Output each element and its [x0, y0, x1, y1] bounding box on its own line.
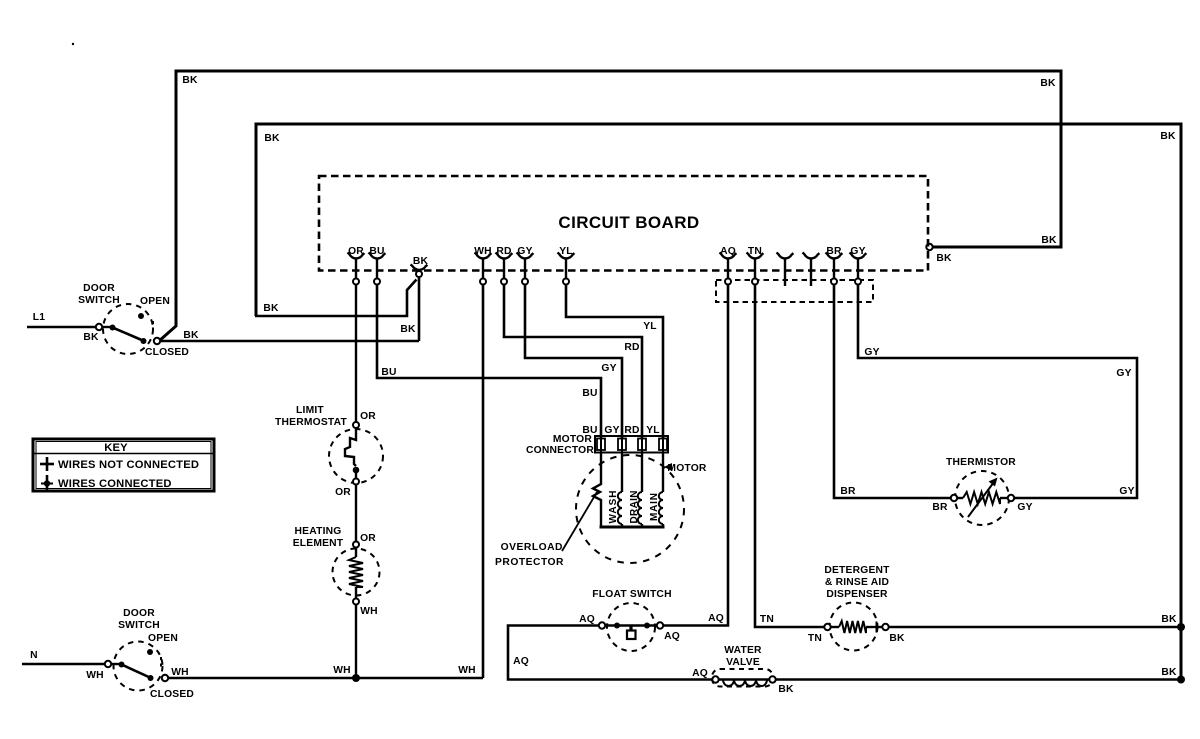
wire OR from pin to limit thermostat	[355, 285, 357, 423]
svg-text:BK: BK	[1041, 235, 1057, 246]
wire WH bottom rail	[168, 677, 483, 680]
svg-text:GY: GY	[1116, 368, 1131, 379]
symbol wires connected	[46, 475, 49, 490]
svg-text:CLOSED: CLOSED	[145, 347, 189, 358]
key box	[33, 439, 214, 491]
svg-text:OR: OR	[360, 411, 376, 422]
svg-text:GY: GY	[1017, 502, 1032, 513]
svg-text:OR: OR	[335, 487, 351, 498]
heating element	[333, 549, 380, 596]
svg-text:AQ: AQ	[513, 656, 529, 667]
svg-text:BK: BK	[1161, 614, 1177, 625]
svg-text:THERMISTOR: THERMISTOR	[946, 457, 1016, 468]
svg-text:WH: WH	[360, 606, 378, 617]
symbol wires not connected	[46, 457, 49, 471]
wire dashed open-contact stub	[152, 321, 154, 334]
svg-text:DOOR: DOOR	[123, 608, 155, 619]
svg-text:BK: BK	[778, 684, 794, 695]
svg-text:WATER: WATER	[724, 645, 762, 656]
svg-text:DOOR: DOOR	[83, 283, 115, 294]
svg-text:MOTOR: MOTOR	[553, 434, 592, 445]
wire RD pin to motor connector	[504, 285, 642, 440]
overload protector jog on BU line	[593, 452, 601, 527]
connector dashed box on right pin group	[716, 280, 873, 302]
svg-text:RD: RD	[624, 342, 639, 353]
svg-text:MOTOR: MOTOR	[667, 463, 706, 474]
svg-text:DRAIN: DRAIN	[629, 491, 640, 524]
node OPEN contact dot	[138, 313, 144, 319]
wire WH pin to bottom rail	[482, 285, 485, 679]
limit thermostat	[329, 429, 383, 483]
svg-text:FLOAT SWITCH: FLOAT SWITCH	[592, 589, 671, 600]
wire door switch to BK pin	[160, 340, 419, 343]
svg-text:N: N	[30, 650, 38, 661]
svg-text:AQ: AQ	[664, 631, 680, 642]
svg-text:WIRES NOT CONNECTED: WIRES NOT CONNECTED	[58, 459, 199, 471]
svg-text:AQ: AQ	[579, 614, 595, 625]
svg-text:BU: BU	[381, 367, 396, 378]
wire BK pin to door-switch wire	[418, 278, 421, 342]
svg-text:BU: BU	[582, 388, 597, 399]
wire L1 lead	[27, 326, 96, 328]
motor DRAIN winding	[641, 452, 643, 492]
svg-text:CONNECTOR: CONNECTOR	[526, 445, 594, 456]
svg-text:& RINSE AID: & RINSE AID	[825, 577, 889, 588]
wire OR thermostat to heating element	[355, 485, 357, 542]
svg-text:VALVE: VALVE	[726, 657, 760, 668]
svg-text:GY: GY	[604, 425, 619, 436]
svg-text:ELEMENT: ELEMENT	[293, 538, 344, 549]
wire BK dispenser to right rail	[889, 626, 1181, 629]
node OPEN contact dot (N switch)	[147, 649, 153, 655]
pin unused 1	[777, 253, 794, 259]
circuit board dashed outline	[319, 176, 928, 271]
svg-text:WASH: WASH	[608, 491, 619, 524]
svg-text:BK: BK	[936, 253, 952, 264]
svg-text:BK: BK	[183, 330, 199, 341]
svg-text:OVERLOAD: OVERLOAD	[501, 542, 563, 553]
svg-text:OR: OR	[360, 533, 376, 544]
motor MAIN winding	[662, 452, 664, 492]
svg-text:KEY: KEY	[104, 442, 128, 454]
svg-text:CIRCUIT BOARD: CIRCUIT BOARD	[558, 213, 699, 232]
svg-text:BK: BK	[400, 324, 416, 335]
node junction WH rail / heating element	[352, 674, 360, 682]
svg-text:THERMOSTAT: THERMOSTAT	[275, 417, 347, 428]
wire GY pin to motor connector	[525, 285, 622, 440]
svg-text:AQ: AQ	[708, 613, 724, 624]
svg-text:BK: BK	[1161, 667, 1177, 678]
svg-text:BK: BK	[264, 133, 280, 144]
svg-text:L1: L1	[33, 312, 45, 323]
svg-text:BK: BK	[263, 303, 279, 314]
wire TN pin to dispenser	[755, 285, 824, 628]
wire BR pin to thermistor	[834, 285, 951, 499]
wire pointer to overload protector	[562, 492, 597, 551]
svg-text:MAIN: MAIN	[649, 493, 660, 521]
wire dashed open-contact stub (N switch)	[160, 657, 162, 670]
svg-text:RD: RD	[624, 425, 639, 436]
svg-text:AQ: AQ	[692, 668, 708, 679]
wire WH heating element to bottom rail	[355, 605, 357, 679]
svg-text:OPEN: OPEN	[148, 633, 178, 644]
svg-text:DETERGENT: DETERGENT	[824, 565, 890, 576]
wire YL pin to motor connector	[566, 285, 663, 440]
svg-text:GY: GY	[601, 363, 616, 374]
svg-text:BK: BK	[182, 75, 198, 86]
svg-text:YL: YL	[643, 321, 657, 332]
svg-text:BK: BK	[1040, 78, 1056, 89]
svg-text:WH: WH	[86, 670, 104, 681]
svg-text:GY: GY	[1119, 486, 1134, 497]
node junction right rail / bottom rail	[1177, 676, 1185, 684]
thermistor	[955, 471, 1009, 525]
detergent dispenser	[830, 603, 878, 651]
svg-text:DISPENSER: DISPENSER	[826, 589, 888, 600]
door switch L1	[103, 304, 153, 354]
svg-text:TN: TN	[808, 633, 822, 644]
svg-text:TN: TN	[760, 614, 774, 625]
water valve	[712, 669, 773, 687]
motor bottom bus bar	[600, 526, 665, 529]
svg-text:WIRES CONNECTED: WIRES CONNECTED	[58, 478, 172, 490]
svg-text:OPEN: OPEN	[140, 296, 170, 307]
svg-text:BR: BR	[840, 486, 856, 497]
wire GY pin loop to thermistor	[858, 285, 1137, 499]
wire BK second rail (left/top/right)	[256, 124, 1181, 680]
svg-text:CLOSED: CLOSED	[150, 689, 194, 700]
wire AQ float switch to board pin	[663, 285, 728, 626]
svg-text:LIMIT: LIMIT	[296, 405, 324, 416]
wire N lead	[22, 663, 105, 665]
node BK terminal on circuit board right edge	[926, 244, 932, 250]
wire BK valve to right rail	[776, 678, 1181, 681]
svg-text:BK: BK	[83, 332, 99, 343]
svg-text:HEATING: HEATING	[295, 526, 342, 537]
wire BK from rail2 bottom to BK pin (diagonal)	[255, 280, 417, 317]
motor connector	[595, 436, 668, 453]
wire AQ left box	[508, 626, 714, 680]
svg-text:SWITCH: SWITCH	[78, 295, 120, 306]
speck	[72, 43, 74, 45]
motor WASH winding	[621, 452, 623, 492]
svg-text:BK: BK	[889, 633, 905, 644]
svg-text:GY: GY	[864, 347, 879, 358]
svg-text:SWITCH: SWITCH	[118, 620, 160, 631]
node junction right rail / dispenser	[1177, 623, 1185, 631]
float switch	[607, 603, 655, 651]
svg-text:BR: BR	[932, 502, 948, 513]
svg-text:PROTECTOR: PROTECTOR	[495, 557, 564, 568]
motor dashed circle	[576, 455, 684, 563]
svg-text:WH: WH	[458, 665, 476, 676]
wire BU pin to motor connector	[377, 285, 601, 440]
svg-text:YL: YL	[646, 425, 660, 436]
svg-text:WH: WH	[333, 665, 351, 676]
pin unused 2	[803, 253, 820, 259]
svg-text:BK: BK	[1160, 131, 1176, 142]
svg-text:WH: WH	[171, 667, 189, 678]
wire BK top rail from door switch to circuit board right	[159, 71, 1061, 341]
door switch N	[114, 642, 163, 691]
